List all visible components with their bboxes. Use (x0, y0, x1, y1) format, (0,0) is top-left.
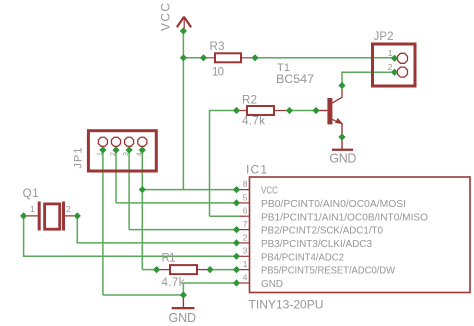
svg-text:TINY13-20PU: TINY13-20PU (249, 298, 324, 312)
svg-text:R1: R1 (162, 253, 176, 265)
svg-text:6: 6 (243, 206, 248, 216)
svg-text:10: 10 (212, 67, 224, 79)
svg-text:1: 1 (388, 48, 393, 58)
svg-text:BC547: BC547 (276, 74, 314, 86)
svg-text:3: 3 (243, 246, 248, 256)
svg-text:JP1: JP1 (73, 148, 85, 169)
svg-text:R2: R2 (242, 95, 257, 107)
svg-text:VCC: VCC (159, 3, 173, 31)
svg-text:2: 2 (243, 232, 248, 242)
svg-text:2: 2 (388, 62, 393, 72)
svg-text:1: 1 (243, 259, 248, 269)
svg-text:GND: GND (329, 151, 356, 165)
svg-text:GND: GND (169, 311, 197, 325)
svg-text:PB5/PCINT5/RESET/ADC0/DW: PB5/PCINT5/RESET/ADC0/DW (261, 265, 395, 277)
svg-text:PB1/PCINT1/AIN1/OC0B/INT0/MISO: PB1/PCINT1/AIN1/OC0B/INT0/MISO (261, 211, 428, 223)
svg-text:4: 4 (243, 272, 248, 282)
svg-text:8: 8 (243, 179, 248, 189)
svg-text:4.7k: 4.7k (242, 116, 265, 128)
svg-text:IC1: IC1 (246, 163, 267, 177)
svg-text:5: 5 (243, 192, 248, 202)
svg-text:PB3/PCINT3/CLKI/ADC3: PB3/PCINT3/CLKI/ADC3 (261, 238, 372, 250)
svg-text:7: 7 (243, 219, 248, 229)
svg-text:R3: R3 (210, 41, 225, 53)
svg-text:JP2: JP2 (374, 31, 394, 43)
svg-text:T1: T1 (277, 62, 290, 74)
svg-text:2: 2 (66, 204, 71, 214)
svg-text:PB0/PCINT0/AIN0/OC0A/MOSI: PB0/PCINT0/AIN0/OC0A/MOSI (261, 198, 406, 210)
svg-text:4.7k: 4.7k (162, 277, 185, 289)
svg-text:PB2/PCINT2/SCK/ADC1/T0: PB2/PCINT2/SCK/ADC1/T0 (261, 225, 383, 237)
svg-text:Q1: Q1 (23, 188, 39, 200)
svg-text:PB4/PCINT4/ADC2: PB4/PCINT4/ADC2 (261, 251, 344, 263)
svg-text:GND: GND (261, 278, 283, 290)
svg-text:1: 1 (30, 204, 35, 214)
svg-text:VCC: VCC (261, 185, 278, 197)
